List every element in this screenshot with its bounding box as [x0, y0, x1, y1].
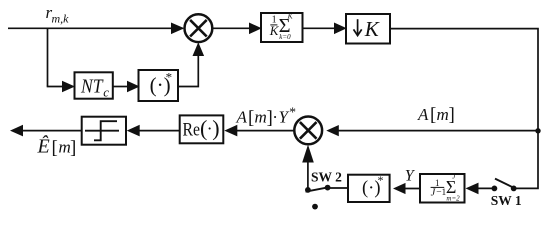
svg-text:NT: NT [80, 76, 104, 98]
svg-text:m=2: m=2 [446, 194, 460, 202]
svg-text:]: ] [70, 138, 76, 159]
svg-text:Re: Re [183, 120, 201, 140]
svg-text:K: K [364, 17, 380, 41]
svg-text:m,k: m,k [52, 12, 70, 26]
svg-text:SW 2: SW 2 [311, 169, 342, 184]
svg-text:k=0: k=0 [279, 33, 291, 41]
svg-text:[: [ [52, 138, 58, 159]
svg-text:m: m [437, 105, 449, 124]
svg-text:*: * [289, 104, 296, 119]
svg-text:m: m [255, 108, 267, 127]
svg-text:Y: Y [279, 108, 290, 127]
svg-text:[: [ [430, 105, 436, 126]
svg-text:): ) [212, 115, 219, 140]
svg-text:SW 1: SW 1 [491, 193, 522, 208]
svg-text:m: m [59, 138, 71, 157]
svg-text:*: * [166, 70, 173, 85]
svg-text:c: c [103, 84, 109, 99]
svg-text:K: K [287, 12, 294, 21]
svg-text:1: 1 [435, 178, 440, 188]
svg-text:]: ] [449, 105, 455, 126]
svg-text:A: A [236, 108, 248, 127]
svg-text:Ê: Ê [37, 135, 50, 158]
svg-text:[: [ [248, 107, 254, 128]
svg-text:A: A [417, 105, 429, 124]
svg-text:·: · [272, 108, 278, 127]
svg-text:*: * [378, 173, 384, 187]
